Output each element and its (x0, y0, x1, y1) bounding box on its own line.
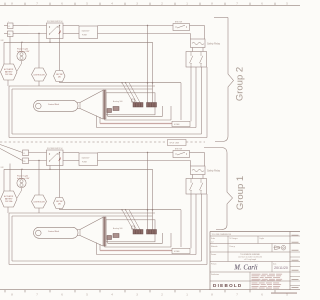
svg-text:TOL./DIM. DIMENSIONI: TOL./DIM. DIMENSIONI (212, 234, 232, 236)
svg-text:L1: L1 (23, 153, 25, 155)
svg-text:Foglio: Foglio (260, 238, 264, 240)
svg-text:N° Disegno: N° Disegno (230, 238, 238, 240)
svg-text:FUSE: FUSE (82, 35, 88, 37)
svg-text:KEY SW: KEY SW (56, 74, 63, 76)
svg-text:± 0.5° sugli angoli: ± 0.5° sugli angoli (244, 259, 257, 261)
svg-text:Power Light: Power Light (17, 47, 28, 50)
svg-text:+: + (8, 21, 9, 23)
svg-text:Denom.: Denom. (211, 254, 217, 256)
svg-text:BATTERY: BATTERY (5, 71, 14, 74)
svg-text:15A 250V: 15A 250V (82, 29, 91, 32)
svg-text:Safety Relay: Safety Relay (207, 43, 221, 46)
svg-text:Indicator 24V: Indicator 24V (17, 50, 30, 53)
svg-text:N1: N1 (8, 34, 10, 36)
svg-text:20/11/20: 20/11/20 (274, 266, 288, 270)
svg-text:Group 1: Group 1 (235, 176, 246, 210)
svg-text:ROCKER SWITCH: ROCKER SWITCH (47, 21, 63, 23)
svg-text:Peso gr: Peso gr (230, 246, 236, 248)
svg-text:Anstieg 500: Anstieg 500 (113, 100, 123, 103)
svg-text:BRK SW: BRK SW (175, 22, 182, 24)
svg-text:ACTUATOR: ACTUATOR (4, 68, 14, 71)
svg-text:1:2: 1:2 (211, 242, 214, 244)
svg-text:L1: L1 (8, 26, 10, 28)
svg-text:24V 12Ah: 24V 12Ah (5, 73, 12, 76)
svg-text:Group 2: Group 2 (235, 67, 246, 101)
svg-text:N1: N1 (23, 161, 25, 163)
svg-text:Control Stick: Control Stick (48, 103, 59, 106)
svg-text:M. Carli: M. Carli (233, 265, 258, 272)
svg-text:CONTROLLER: CONTROLLER (33, 74, 45, 76)
svg-text:Scala: Scala (211, 238, 215, 240)
svg-text:SPLIT LINE: SPLIT LINE (170, 143, 180, 145)
svg-text:M.CAB: M.CAB (174, 123, 180, 126)
svg-text:D I E B O L D: D I E B O L D (213, 283, 242, 288)
svg-text:TOLLERANZE GENERALI: TOLLERANZE GENERALI (240, 253, 261, 256)
